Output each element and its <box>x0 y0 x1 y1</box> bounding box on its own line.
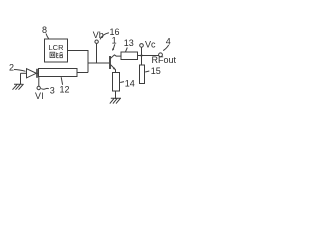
svg-text:14: 14 <box>125 79 135 89</box>
svg-text:1: 1 <box>112 35 117 45</box>
svg-text:12: 12 <box>60 85 70 95</box>
svg-text:Vc: Vc <box>145 40 156 50</box>
svg-text:15: 15 <box>151 66 161 76</box>
svg-text:3: 3 <box>50 86 55 96</box>
svg-text:LCR: LCR <box>48 43 64 52</box>
svg-text:2: 2 <box>9 63 14 73</box>
svg-text:Vl: Vl <box>35 91 44 101</box>
svg-text:4: 4 <box>166 36 171 46</box>
svg-text:Vb: Vb <box>93 30 104 40</box>
svg-text:13: 13 <box>124 38 134 48</box>
svg-text:8: 8 <box>42 25 47 35</box>
svg-text:RFout: RFout <box>152 55 177 65</box>
